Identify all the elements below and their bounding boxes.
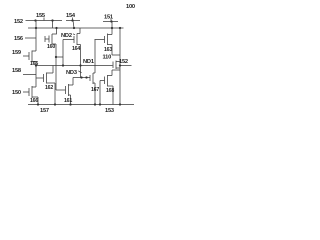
wire ND2 tilde xyxy=(73,34,75,35)
node dot W_ND3 x80 xyxy=(79,64,81,66)
svg-text:ND3: ND3 xyxy=(66,70,77,76)
transistor QSE (bottom-right) xyxy=(100,70,120,105)
node dot rail2-e xyxy=(119,27,121,29)
transistor Q150 xyxy=(23,86,38,105)
svg-text:110: 110 xyxy=(103,55,112,61)
svg-text:164: 164 xyxy=(72,46,80,52)
svg-text:ND1: ND1 xyxy=(83,59,94,65)
wire ND3 tilde xyxy=(78,71,81,73)
svg-text:163: 163 xyxy=(104,47,112,53)
node dot 152 xyxy=(119,64,121,66)
wire 156 leader xyxy=(25,37,36,39)
svg-text:100: 100 xyxy=(126,4,135,10)
wire 152 right xyxy=(120,65,132,67)
node dot center ND3a xyxy=(55,56,57,58)
transistor QE (right upper) xyxy=(95,22,121,56)
wire stub3 top-right (net 151) xyxy=(103,21,118,23)
node dot rail2-b xyxy=(55,27,57,29)
node dot rail-bot a xyxy=(37,103,39,105)
node dot rail-bot c xyxy=(69,103,71,105)
node dot rail2-c xyxy=(73,27,75,29)
transistor QbotR xyxy=(90,40,95,105)
wire right column xyxy=(119,28,121,105)
node dot rail2-a xyxy=(35,27,37,29)
svg-text:158: 158 xyxy=(12,68,21,74)
node dot stub2 xyxy=(71,19,73,21)
wire 158 leader xyxy=(23,74,36,76)
svg-text:159: 159 xyxy=(12,50,21,56)
wire rail2 horizontal bus xyxy=(28,27,124,29)
transistor Qmid (160) xyxy=(45,21,57,58)
svg-text:157: 157 xyxy=(40,108,49,114)
svg-text:155: 155 xyxy=(36,13,45,19)
svg-text:162: 162 xyxy=(45,85,53,91)
node dot W_ND3 left xyxy=(35,64,37,66)
wire W_ND3 horizontal xyxy=(36,65,113,67)
svg-text:161: 161 xyxy=(64,98,72,104)
transistor QbotL xyxy=(66,78,74,105)
node dot rail-bot b xyxy=(54,103,56,105)
wire left column mid xyxy=(35,66,37,88)
node dot rail2-d xyxy=(111,27,113,29)
svg-text:ND2: ND2 xyxy=(61,33,72,39)
wire ND1 column xyxy=(80,48,82,78)
node dot stub1-b xyxy=(51,19,53,21)
node dot rail-bot e xyxy=(119,103,121,105)
transistor Q110 xyxy=(113,61,120,70)
svg-text:152: 152 xyxy=(119,59,128,65)
wire stub2 top-center (net 154) xyxy=(66,20,80,22)
transistor QX (left-center lower) xyxy=(36,66,55,105)
svg-text:165: 165 xyxy=(30,61,38,67)
node dot rail-bot d xyxy=(94,103,96,105)
svg-text:154: 154 xyxy=(66,13,76,19)
svg-text:152: 152 xyxy=(14,19,23,25)
svg-text:153: 153 xyxy=(105,108,114,114)
wire tick 155 xyxy=(43,18,45,21)
node dot y77.5-a xyxy=(80,76,82,78)
wire left column upper xyxy=(35,21,37,52)
wire tick 154 xyxy=(73,18,75,29)
node dot rail-bot qse xyxy=(99,103,101,105)
svg-text:160: 160 xyxy=(47,44,55,50)
wire stub1 top-left (net 152) xyxy=(26,20,63,22)
node dot y77.5-b xyxy=(85,76,87,78)
wire bottom mid y77.5 xyxy=(73,77,90,79)
svg-text:156: 156 xyxy=(14,36,23,42)
svg-text:167: 167 xyxy=(91,87,99,93)
svg-text:151: 151 xyxy=(104,15,113,21)
transistor Q159 xyxy=(23,51,36,66)
wire center column to botL gate xyxy=(56,57,66,90)
wire bottom rail xyxy=(28,104,134,106)
svg-text:166: 166 xyxy=(30,98,38,104)
transistor Qright (ND2/ND1) xyxy=(74,28,81,48)
svg-text:168: 168 xyxy=(106,88,114,94)
wire tick 151 xyxy=(110,19,112,22)
svg-text:150: 150 xyxy=(12,90,21,96)
wire center jog node ND3 xyxy=(56,40,74,66)
node dot stub1-a xyxy=(34,19,36,21)
node dot stub3 xyxy=(110,20,112,22)
node dot W_ND3 jog xyxy=(62,64,64,66)
